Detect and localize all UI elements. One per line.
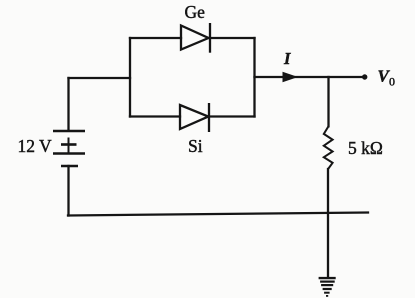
node V0 dot xyxy=(362,74,367,79)
battery plate short upper xyxy=(61,143,77,146)
current arrow I xyxy=(283,72,299,82)
wire battery top to corner (left vertical) xyxy=(67,78,69,131)
diode D2 Si xyxy=(180,103,209,132)
svg-text:I: I xyxy=(283,49,291,68)
battery plate short bottom xyxy=(61,165,78,168)
svg-text:0: 0 xyxy=(389,75,395,89)
diode D2 triangle xyxy=(180,105,208,129)
ground symbol xyxy=(319,278,336,296)
diode D1 cathode bar xyxy=(209,23,211,53)
wire corner to diode box left bar (top-left horizontal) xyxy=(69,77,131,79)
wire bottom return xyxy=(68,213,368,216)
svg-text:5 kΩ: 5 kΩ xyxy=(348,138,383,158)
resistor R1 5k zigzag xyxy=(324,126,333,169)
diode D2 cathode bar xyxy=(208,103,210,132)
svg-text:Ge: Ge xyxy=(185,2,206,22)
battery center stub xyxy=(68,138,70,154)
wire battery bottom to return wire xyxy=(67,166,69,216)
wire resistor bottom to ground xyxy=(327,169,329,278)
wire diode box left bar xyxy=(129,38,131,117)
wire junction down to resistor xyxy=(327,77,329,126)
battery B1 12 V xyxy=(53,131,85,166)
wire bottom branch left segment xyxy=(130,115,180,117)
battery plate long top xyxy=(53,130,85,133)
diode D1 Ge xyxy=(181,23,210,53)
diode D1 triangle xyxy=(181,26,209,50)
wire top branch left segment xyxy=(130,37,181,39)
battery plate long lower xyxy=(53,152,85,155)
wire diode box right bar xyxy=(253,38,255,117)
wire bottom branch right segment xyxy=(209,115,255,117)
svg-text:12 V: 12 V xyxy=(18,136,53,156)
wire output to node V0 xyxy=(255,76,365,78)
wire top branch right segment xyxy=(210,37,255,39)
svg-text:Si: Si xyxy=(188,136,203,156)
